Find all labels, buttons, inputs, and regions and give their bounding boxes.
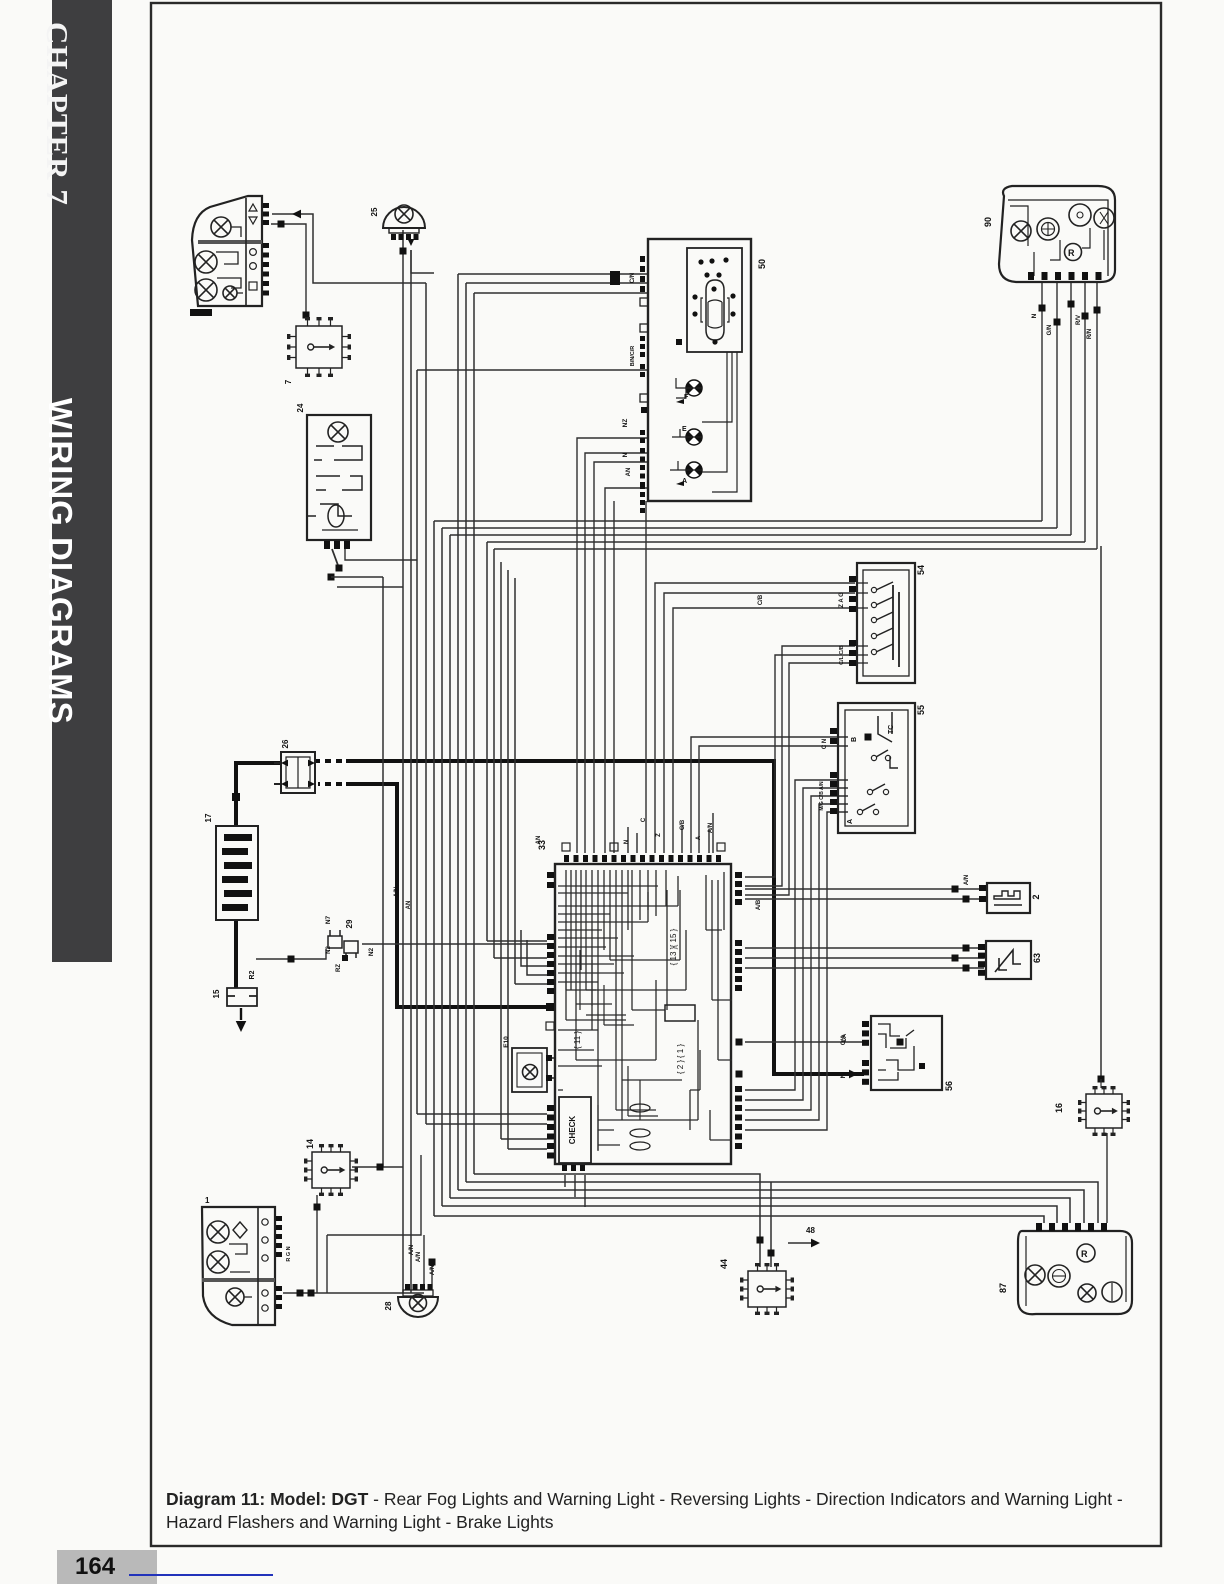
svg-text:50: 50 bbox=[757, 259, 767, 269]
wire vertical harness x487 bbox=[486, 542, 488, 941]
fuse connector 26 bbox=[274, 739, 315, 793]
blob flasher 44 pin 2 bbox=[768, 1250, 775, 1257]
svg-text:CA: CA bbox=[842, 1033, 848, 1042]
wire unit 33 top pin to switch 55 pin 1 bbox=[691, 737, 848, 853]
svg-text:CHECK: CHECK bbox=[568, 1116, 577, 1145]
connector 15 bbox=[212, 970, 257, 1006]
blob above flasher unit 16 bbox=[1098, 1076, 1105, 1083]
svg-text:A/N: A/N bbox=[964, 875, 970, 885]
wire connector 15 to plugs 29 bbox=[256, 949, 326, 959]
lamp cluster 9 (LH rear light unit) bbox=[190, 196, 269, 316]
wire lamp 25 right tail elbow bbox=[411, 250, 434, 273]
wire 50 lamp E feed bbox=[585, 453, 648, 853]
svg-text:AN: AN bbox=[626, 468, 632, 477]
svg-text:N: N bbox=[622, 452, 629, 457]
wire 33 left pin feed 4 bbox=[527, 940, 547, 975]
svg-text:A/B: A/B bbox=[756, 899, 762, 910]
wire unit 33 right pin to switch 54 lower pin 2 bbox=[745, 646, 855, 886]
warning bulb module E10 bbox=[503, 1036, 547, 1092]
svg-text:RZ: RZ bbox=[336, 964, 342, 972]
svg-text:7: 7 bbox=[284, 379, 293, 384]
svg-text:N: N bbox=[624, 840, 630, 844]
wire thick supply lower run from connector 26 down to control unit 33 pin bbox=[318, 784, 552, 1007]
svg-text:26: 26 bbox=[281, 739, 290, 748]
svg-text:A/N: A/N bbox=[430, 1265, 436, 1275]
check module inside unit 33 bbox=[559, 1097, 591, 1171]
wire switch 55 lower pin 5 loop bbox=[745, 812, 848, 1130]
wire bottom harness run 4 bbox=[458, 1190, 1084, 1223]
svg-text:C/B: C/B bbox=[758, 594, 764, 605]
blob on 63 line 1 bbox=[952, 955, 959, 962]
lamp cluster 1 (LH front) bbox=[202, 1196, 292, 1325]
svg-text:2: 2 bbox=[1031, 894, 1041, 899]
junction blob on 90 drop 4 bbox=[1082, 313, 1089, 320]
svg-text:{ 11 }: { 11 } bbox=[573, 1031, 582, 1049]
wire horizontal run 2 from rear lamp cluster 90 bbox=[442, 527, 1057, 529]
wire flasher 16 top pin bbox=[1100, 1079, 1102, 1088]
reversing light switch 24 bbox=[296, 403, 371, 549]
svg-text:A: A bbox=[696, 835, 702, 840]
wire vertical drop 2 of rear lamp cluster 90 bbox=[1056, 282, 1058, 528]
blob wire 15-29 bbox=[288, 956, 295, 963]
wire diode 14 output right bbox=[352, 1166, 403, 1168]
wire unit 33 to connector 2 line 2 bbox=[745, 898, 985, 900]
wire 33 left pin feed 2 bbox=[494, 957, 547, 959]
junction blob on 90 drop 3 bbox=[1068, 301, 1075, 308]
svg-text:17: 17 bbox=[204, 813, 213, 822]
wire bottom harness to flasher 44 bbox=[426, 1123, 547, 1125]
svg-text:A: A bbox=[682, 478, 687, 485]
wire check-box feed 1 bbox=[501, 1138, 547, 1140]
blob on connector 2 line bbox=[952, 886, 959, 893]
wire 33 left pin feed 5 bbox=[515, 983, 547, 985]
svg-text:Z A G: Z A G bbox=[839, 592, 845, 608]
svg-text:44: 44 bbox=[719, 1259, 729, 1269]
wire vertical drop 5 of rear lamp cluster 90 bbox=[1096, 282, 1098, 549]
svg-text:C N: C N bbox=[822, 739, 828, 749]
wire unit 33 to connector 63 line 2 bbox=[745, 957, 984, 959]
wire vertical drop 3 of rear lamp cluster 90 bbox=[1070, 282, 1072, 535]
wire lamp 28 pin drops bbox=[423, 1235, 425, 1290]
wire bottom harness run 1 bbox=[434, 1216, 1044, 1223]
junction blob on 90 drop 5 bbox=[1094, 307, 1101, 314]
svg-text:B/N/C/R: B/N/C/R bbox=[630, 346, 636, 367]
wire horizontal run 4 from rear lamp cluster 90 bbox=[487, 541, 1085, 543]
wire 50 pin C-N bbox=[458, 273, 648, 275]
svg-text:AN: AN bbox=[536, 836, 542, 845]
svg-text:C: C bbox=[641, 817, 647, 822]
wire bottom harness run 2 bbox=[442, 1206, 1057, 1223]
svg-text:90: 90 bbox=[983, 217, 993, 227]
wire unit 33 right pin to switch 54 lower pin 3 bbox=[745, 663, 855, 895]
flasher unit 44 bbox=[748, 1271, 786, 1307]
svg-text:54: 54 bbox=[916, 565, 926, 575]
wire 50 pin lower bbox=[417, 369, 648, 371]
lamp cluster 87 (RH front) bbox=[998, 1223, 1132, 1314]
wire vertical harness x403 number-plate lamp to rear lamp 28 bbox=[402, 230, 404, 1293]
diode unit 7 bbox=[296, 326, 342, 368]
relay 56 bbox=[840, 1016, 954, 1091]
wire 50 pin NZ bbox=[466, 282, 648, 284]
svg-text:Z: Z bbox=[656, 833, 662, 837]
wire lamp 28 extra pin bbox=[431, 1262, 433, 1290]
svg-text:R: R bbox=[1081, 1249, 1088, 1259]
wire thick supply from connector 26 to terminal block (top run) bbox=[315, 761, 864, 1074]
svg-text:C/N: C/N bbox=[630, 273, 636, 283]
wire thick resistor pack 17 to connector 15 bbox=[234, 920, 238, 988]
wire switch 24 third tail bbox=[345, 549, 417, 560]
wire unit 33 to relay 56 (C-A) bbox=[745, 1041, 862, 1043]
svg-text:N: N bbox=[840, 1073, 847, 1078]
wire unit 33 top pin to switch 54 upper pin 2 bbox=[664, 593, 855, 853]
wire diode 14 bottom drop bbox=[316, 1195, 318, 1293]
svg-text:B: B bbox=[851, 737, 858, 742]
wire drop to flasher 44 pin 2 bbox=[770, 1182, 772, 1267]
wire check-box feed 2 bbox=[508, 1148, 547, 1150]
svg-text:87: 87 bbox=[998, 1283, 1008, 1293]
svg-text:25: 25 bbox=[370, 207, 379, 216]
blob cluster 1 wire a bbox=[297, 1290, 304, 1297]
svg-text:R G N: R G N bbox=[286, 1246, 292, 1261]
wire 50 lamp A feed bbox=[594, 462, 648, 853]
wire unit 33 to connector 2 line 1 bbox=[745, 888, 985, 890]
number plate / rear lamp 28 bbox=[384, 1252, 438, 1317]
svg-text:G/N: G/N bbox=[1047, 325, 1053, 336]
drops below check module bbox=[565, 1175, 585, 1207]
wire 50 bottom pin feed bbox=[605, 488, 648, 853]
svg-text:A/N: A/N bbox=[708, 823, 714, 833]
svg-text:16: 16 bbox=[1054, 1103, 1064, 1113]
svg-text:A/N: A/N bbox=[394, 887, 400, 897]
svg-text:C/B: C/B bbox=[680, 819, 686, 830]
wire 50 pin N bbox=[474, 292, 648, 294]
junction blob cluster 9 pin 2 bbox=[278, 221, 285, 228]
svg-text:E: E bbox=[682, 426, 687, 433]
blob2 on connector 2 line bbox=[963, 896, 970, 903]
wire harness to flasher unit 44 feed bbox=[474, 1174, 760, 1267]
svg-text:55: 55 bbox=[916, 705, 926, 715]
instrument cluster 50 bbox=[622, 239, 767, 513]
wire horizontal run 3 from rear lamp cluster 90 bbox=[450, 534, 1071, 536]
blob relay 56 wire bbox=[897, 1039, 904, 1046]
wire 33 left pin feed 1 bbox=[487, 940, 547, 942]
svg-text:{ 13 }: { 13 } bbox=[669, 946, 678, 965]
svg-text:{ 2 }: { 2 } bbox=[676, 1060, 685, 1075]
svg-text:48: 48 bbox=[806, 1226, 815, 1235]
wire E10 feed bbox=[417, 1113, 547, 1115]
wire switch 55 lower pin 3 loop bbox=[745, 796, 848, 1110]
wire 33 left pin feed 3 bbox=[521, 930, 547, 966]
svg-text:1: 1 bbox=[205, 1196, 210, 1205]
svg-text:15: 15 bbox=[212, 989, 221, 998]
svg-text:TC: TC bbox=[888, 725, 895, 734]
wire 50 lamp F feed bbox=[577, 438, 648, 853]
wire switch 24 to harness upper bbox=[331, 576, 383, 578]
diode unit 14 bbox=[312, 1152, 350, 1188]
wire lamp 25 right tail arrow bbox=[408, 239, 415, 246]
wire vertical harness x508 bbox=[507, 570, 509, 1149]
connector 2 (rear fog feed) bbox=[964, 875, 1041, 913]
svg-text:M/G C/B A/N: M/G C/B A/N bbox=[819, 781, 825, 811]
wire lamp 25 left tail junction blob bbox=[400, 248, 407, 255]
svg-text:14: 14 bbox=[305, 1139, 315, 1149]
blob diode 14 bottom bbox=[314, 1204, 321, 1211]
blob cluster 1 wire b bbox=[308, 1290, 315, 1297]
wire horizontal y1235 bbox=[327, 1155, 421, 1235]
arrow flasher 44 output bbox=[811, 1239, 820, 1248]
svg-text:{ 1 }: { 1 } bbox=[676, 1044, 685, 1059]
wire switch 24 tail diagonal bbox=[332, 549, 339, 568]
wire unit 33 to connector 63 line 1 bbox=[745, 947, 984, 949]
blob switch 24 tail 1 bbox=[336, 565, 343, 572]
hazard switch 54 bbox=[839, 563, 926, 683]
wire vertical harness x474 bbox=[473, 293, 475, 1174]
svg-text:R/V: R/V bbox=[1076, 315, 1082, 325]
connector block on instrument bus bbox=[610, 271, 620, 285]
bullet plugs 29 bbox=[325, 915, 375, 961]
wire horizontal run 1 from rear lamp cluster 90 bbox=[434, 520, 1042, 522]
svg-text:N: N bbox=[1031, 313, 1038, 318]
wire from lamp cluster 9 pin 1 (arrowed) across and down bbox=[272, 214, 426, 283]
wire vertical harness x515 bbox=[514, 578, 516, 984]
wire long vertical to flasher unit 16 bbox=[1100, 546, 1102, 1079]
wire flasher 44 output arrow bbox=[788, 1242, 812, 1244]
ground symbol below connector 15 bbox=[240, 1008, 242, 1020]
blob flasher 44 pin 1 bbox=[757, 1237, 764, 1244]
wire vertical harness x458 bbox=[457, 274, 459, 1190]
wire 50 bottom edge pin drop bbox=[613, 501, 615, 853]
wire bypass loop under diode 14 bbox=[326, 1235, 328, 1293]
wire bottom harness run 3 bbox=[450, 1198, 1070, 1223]
wire unit 33 top pin to switch 54 upper pin 1 bbox=[655, 583, 855, 853]
wire switch 55 lower pin 1 loop bbox=[745, 780, 848, 1090]
arrow on wire from cluster 9 bbox=[292, 210, 301, 219]
wire unit 33 top pin to switch 55 pin 2 bbox=[699, 746, 848, 853]
wires E10 to unit 33 bbox=[547, 1058, 555, 1078]
svg-text:N2: N2 bbox=[326, 946, 332, 954]
wire switch 55 lower pin 4 loop bbox=[745, 804, 848, 1120]
svg-text:63: 63 bbox=[1032, 953, 1042, 963]
wire bottom harness run 5 bbox=[466, 1182, 1098, 1223]
wire cluster 1 to lamp 28 feed bbox=[283, 1292, 424, 1294]
svg-text:N2: N2 bbox=[368, 947, 375, 956]
rear lamp cluster 90 (RH) bbox=[983, 186, 1115, 339]
svg-text:24: 24 bbox=[296, 403, 305, 412]
svg-text:A/N: A/N bbox=[416, 1252, 422, 1262]
blob switch 24 tail 2 bbox=[328, 574, 335, 581]
wire vertical harness x383 (reversing switch feed) bbox=[382, 577, 384, 1167]
blob b on 63 line 3 bbox=[963, 965, 970, 972]
junction blob on 90 drop 2 bbox=[1054, 319, 1061, 326]
wire 50 bottom corner drop bbox=[645, 501, 647, 853]
wire check feed drop 1 bbox=[500, 1138, 502, 1140]
wire vertical harness x501 bbox=[500, 562, 502, 1139]
junction blob on 90 drop 1 bbox=[1039, 305, 1046, 312]
direction indicator switch 55 bbox=[819, 703, 926, 833]
wire unit 33 top pin to switch 54 upper pin 3 bbox=[673, 608, 855, 853]
wire thick from connector 26 left to resistor pack 17 bbox=[236, 763, 281, 826]
wire vertical drop 1 of rear lamp cluster 90 bbox=[1041, 282, 1043, 521]
wire switch 24 to harness lower bbox=[337, 586, 403, 588]
wire horizontal run 5 from rear lamp cluster 90 bbox=[494, 548, 1097, 550]
svg-text:A/N: A/N bbox=[409, 1245, 415, 1255]
hazard/indicator control unit 33 bbox=[537, 840, 743, 1164]
wire switch 55 lower pin 2 loop bbox=[745, 788, 848, 1100]
blob a on 63 line 2 bbox=[963, 945, 970, 952]
flasher unit 16 bbox=[1086, 1094, 1122, 1128]
wire vertical harness x434 direction indicator feed L bbox=[433, 521, 435, 1216]
wire vertical harness x442 bbox=[441, 528, 443, 1206]
wire vertical harness x426 from lamp cluster 9 bbox=[425, 283, 427, 1124]
wire unit 33 to connector 63 line 3 bbox=[745, 967, 984, 969]
svg-text:R: R bbox=[1068, 248, 1075, 258]
svg-text:E10: E10 bbox=[503, 1036, 510, 1048]
wire vertical drop 4 of rear lamp cluster 90 bbox=[1084, 282, 1086, 542]
resistor pack 17 bbox=[204, 813, 258, 920]
wire vertical harness x411 number-plate lamp feed 2 bbox=[410, 250, 412, 1293]
wire plugs 29 to unit 33 bbox=[362, 943, 547, 945]
blob lamp 28 extra pin bbox=[429, 1259, 436, 1266]
junction on thick wire at resistor pack 17 top bbox=[232, 793, 240, 801]
wire vertical harness x450 bbox=[449, 535, 451, 1198]
svg-text:56: 56 bbox=[944, 1081, 954, 1091]
svg-text:NZ: NZ bbox=[622, 419, 629, 428]
connector 63 bbox=[978, 941, 1042, 979]
svg-text:A: A bbox=[847, 819, 854, 824]
svg-text:AN: AN bbox=[406, 901, 412, 910]
wire vertical harness x466 bbox=[465, 283, 467, 1182]
wire from lamp cluster 9 pin 2 down to diode unit 7 bbox=[271, 224, 306, 318]
arrow into relay 56 bbox=[849, 1070, 858, 1079]
svg-text:{ 15 }: { 15 } bbox=[669, 928, 678, 947]
wire vertical harness x417 instrument feed bbox=[416, 370, 418, 1114]
number plate lamp 25 bbox=[370, 205, 425, 240]
blob diode 14 output bbox=[377, 1164, 384, 1171]
short stub wires above unit 33 bbox=[628, 813, 713, 853]
wire flasher 16 bottom to cluster 87 bbox=[1106, 1133, 1108, 1223]
wire vertical harness x494 bbox=[493, 549, 495, 958]
svg-text:R2: R2 bbox=[249, 970, 256, 979]
wire dash marks at connector 26 outputs bbox=[320, 761, 346, 784]
svg-text:R/N: R/N bbox=[1087, 329, 1093, 339]
junction blob above diode unit 7 bbox=[303, 312, 310, 319]
svg-text:C/L C/B: C/L C/B bbox=[839, 645, 845, 665]
wire unit 33 right pin to switch 54 lower pin 1 bbox=[745, 655, 855, 877]
svg-text:N7: N7 bbox=[325, 915, 332, 924]
svg-text:28: 28 bbox=[384, 1301, 393, 1310]
svg-text:29: 29 bbox=[345, 919, 354, 928]
